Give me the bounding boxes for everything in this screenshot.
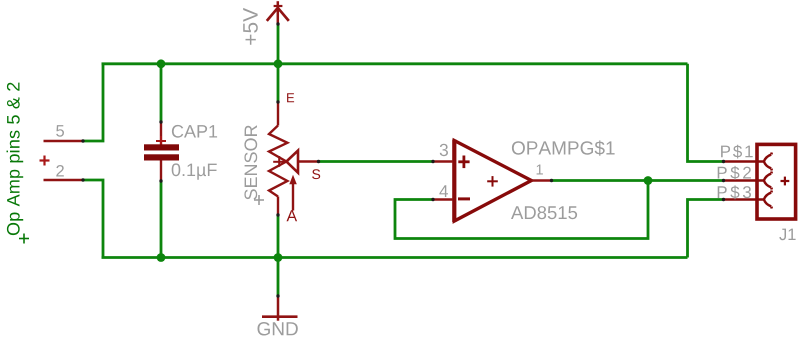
- op-amp pin 1 output stub: [531, 179, 551, 181]
- wire: top rail down to pin 5: [83, 64, 103, 141]
- lead top pin E: [277, 102, 279, 126]
- J1 pin P$2 contact: [764, 172, 772, 190]
- wire: top +5V rail: [102, 62, 688, 65]
- ground symbol: [262, 296, 298, 321]
- CAP1 plate bottom: [144, 154, 179, 160]
- value AD8515: [511, 206, 577, 219]
- op-amp pin number 3: [440, 144, 448, 156]
- wire: CAP1 to bottom rail: [160, 181, 163, 258]
- connector J1 body: [757, 144, 796, 219]
- wire/pin connection dots: [81, 22, 725, 297]
- pin label E: [287, 93, 294, 102]
- pin label P$1: [721, 145, 753, 159]
- label OPAMPG$1: [512, 140, 615, 155]
- adjustment arrow: [292, 184, 294, 211]
- pin label A: [287, 210, 298, 221]
- J1 pin P$3 contact: [764, 191, 772, 209]
- CAP1 plate top: [144, 144, 179, 150]
- label J1: [779, 229, 795, 241]
- op-amp OPAMPG$1 body: [454, 141, 531, 222]
- origin cross near pin 2: [40, 156, 50, 166]
- wire: SENSOR wiper S to op-amp pin 3: [319, 160, 434, 163]
- junction: bottom rail / SENSOR / GND: [274, 253, 283, 262]
- wire: top rail to SENSOR pin E: [277, 64, 280, 102]
- wire: op-amp output to J1 P$2: [552, 179, 724, 182]
- pin 2 lead: [44, 179, 84, 181]
- op-amp origin cross: [487, 176, 498, 187]
- origin cross: [273, 161, 285, 163]
- resistor zigzag: [269, 126, 287, 197]
- wire: bottom GND rail: [102, 256, 688, 259]
- wire: top rail to J1 P$1: [688, 64, 724, 162]
- wiper triangle: [286, 151, 298, 173]
- note text: Op Amp pins 5 & 2: [7, 83, 24, 236]
- wire: +5V symbol drop: [277, 24, 280, 64]
- wire: bottom rail to GND symbol: [277, 258, 280, 297]
- J1 pin P$1 lead: [724, 160, 764, 162]
- net label GND: [258, 322, 298, 336]
- wire: feedback loop to op-amp pin 4: [395, 181, 648, 239]
- note text origin cross: [19, 234, 29, 244]
- J1 pin P$2 lead: [724, 179, 764, 181]
- net label +5V: [243, 8, 258, 45]
- wire: SENSOR pin A to bottom rail: [277, 215, 280, 258]
- minus sign inverting input: [458, 197, 470, 200]
- J1 pin P$1 contact: [764, 153, 772, 171]
- wiper stub to pin S: [298, 160, 319, 162]
- J1 pin P$3 lead: [724, 198, 764, 200]
- potentiometer SENSOR: [269, 102, 319, 215]
- pin 5 lead: [44, 140, 84, 142]
- junction: output / feedback / P$2: [644, 176, 653, 185]
- wire: bottom rail to J1 P$3: [688, 200, 724, 258]
- pin number 5: [56, 125, 64, 137]
- pin label P$2: [718, 166, 751, 180]
- wire: top rail to CAP1: [160, 64, 163, 122]
- CAP1 lead bottom: [160, 161, 162, 182]
- capacitor CAP1: [144, 122, 179, 181]
- CAP1 lead top: [160, 122, 162, 145]
- CAP1 origin cross: [156, 136, 166, 146]
- J1 polarity plus: [781, 177, 790, 186]
- label SENSOR: [244, 125, 257, 199]
- wire: pin 2 down to bottom rail: [83, 180, 103, 258]
- op-amp pin 4 stub: [433, 198, 453, 200]
- lead bottom pin A: [277, 197, 279, 216]
- junction: top rail / SENSOR / +5V: [274, 59, 283, 68]
- op-amp pin 3 stub: [433, 160, 453, 162]
- power symbol +5V: [267, 1, 289, 25]
- op-amp pin number 1: [537, 165, 543, 175]
- plus sign non-inverting input: [458, 156, 469, 169]
- junction: bottom rail / CAP1: [157, 253, 166, 262]
- value 0.1uF: [172, 163, 217, 179]
- pin label P$3: [718, 185, 751, 199]
- op-amp pin number 4: [439, 185, 448, 197]
- pin number 2: [56, 165, 64, 177]
- junction: top rail / CAP1: [157, 59, 166, 68]
- label CAP1: [172, 125, 217, 138]
- SENSOR origin cross: [254, 195, 264, 205]
- pin label S: [312, 169, 320, 179]
